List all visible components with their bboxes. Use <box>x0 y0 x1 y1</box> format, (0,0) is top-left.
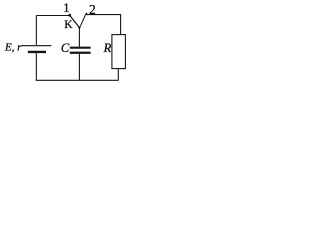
svg-text:1: 1 <box>63 1 69 15</box>
svg-text:r: r <box>17 42 22 54</box>
svg-text:E,: E, <box>4 42 15 54</box>
battery E,r short plate <box>28 51 46 53</box>
wire top-right (contact 2 to resistor) <box>85 15 120 35</box>
capacitor C top plate <box>70 47 91 49</box>
wire bottom <box>36 79 119 81</box>
node contact 1 dot <box>68 14 71 17</box>
switch K lever (to contact 1) <box>70 15 80 27</box>
wire capacitor bottom lead <box>78 54 80 81</box>
svg-text:C: C <box>61 41 70 55</box>
resistor R1 body <box>112 35 126 69</box>
svg-text:K: K <box>64 19 73 31</box>
wire top-left (battery top to switch contact 1) <box>36 16 68 45</box>
capacitor C bottom plate <box>70 52 91 54</box>
wire battery bottom lead <box>35 53 37 80</box>
node switch pivot <box>78 26 80 28</box>
node contact 2 dot <box>86 13 88 15</box>
battery E,r long plate <box>22 45 52 47</box>
svg-text:R: R <box>103 41 112 55</box>
wire resistor bottom lead <box>117 69 119 81</box>
switch arm to contact 2 <box>80 15 86 28</box>
wire switch pivot to capacitor <box>78 28 80 47</box>
